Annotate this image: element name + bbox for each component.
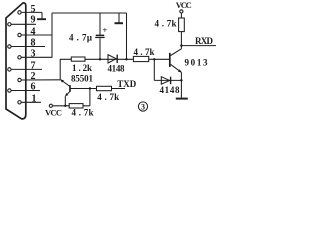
svg-text:VCC: VCC	[45, 108, 62, 118]
svg-text:VCC: VCC	[176, 0, 192, 10]
svg-text:1 . 2k: 1 . 2k	[72, 63, 92, 73]
svg-text:7: 7	[31, 61, 36, 72]
svg-text:9: 9	[31, 15, 36, 26]
svg-text:4148: 4148	[108, 63, 126, 73]
svg-text:3: 3	[141, 102, 145, 111]
svg-text:85501: 85501	[71, 73, 94, 83]
svg-text:6: 6	[31, 82, 36, 93]
svg-text:4 . 7μ: 4 . 7μ	[69, 33, 92, 43]
svg-text:RXD: RXD	[195, 36, 214, 46]
svg-text:4 . 7k: 4 . 7k	[155, 19, 177, 29]
svg-text:+: +	[103, 26, 108, 35]
svg-text:5: 5	[31, 4, 36, 15]
svg-text:TXD: TXD	[117, 79, 137, 89]
svg-text:9013: 9013	[185, 58, 209, 68]
svg-text:4 . 7k: 4 . 7k	[134, 47, 155, 57]
svg-text:2: 2	[31, 71, 36, 82]
svg-text:4 . 7k: 4 . 7k	[97, 92, 119, 102]
svg-text:4 . 7k: 4 . 7k	[72, 108, 94, 118]
svg-text:8: 8	[31, 38, 36, 49]
svg-text:4: 4	[31, 26, 36, 37]
svg-text:1: 1	[32, 93, 37, 104]
svg-text:4148: 4148	[160, 85, 181, 95]
svg-text:3: 3	[31, 48, 36, 59]
